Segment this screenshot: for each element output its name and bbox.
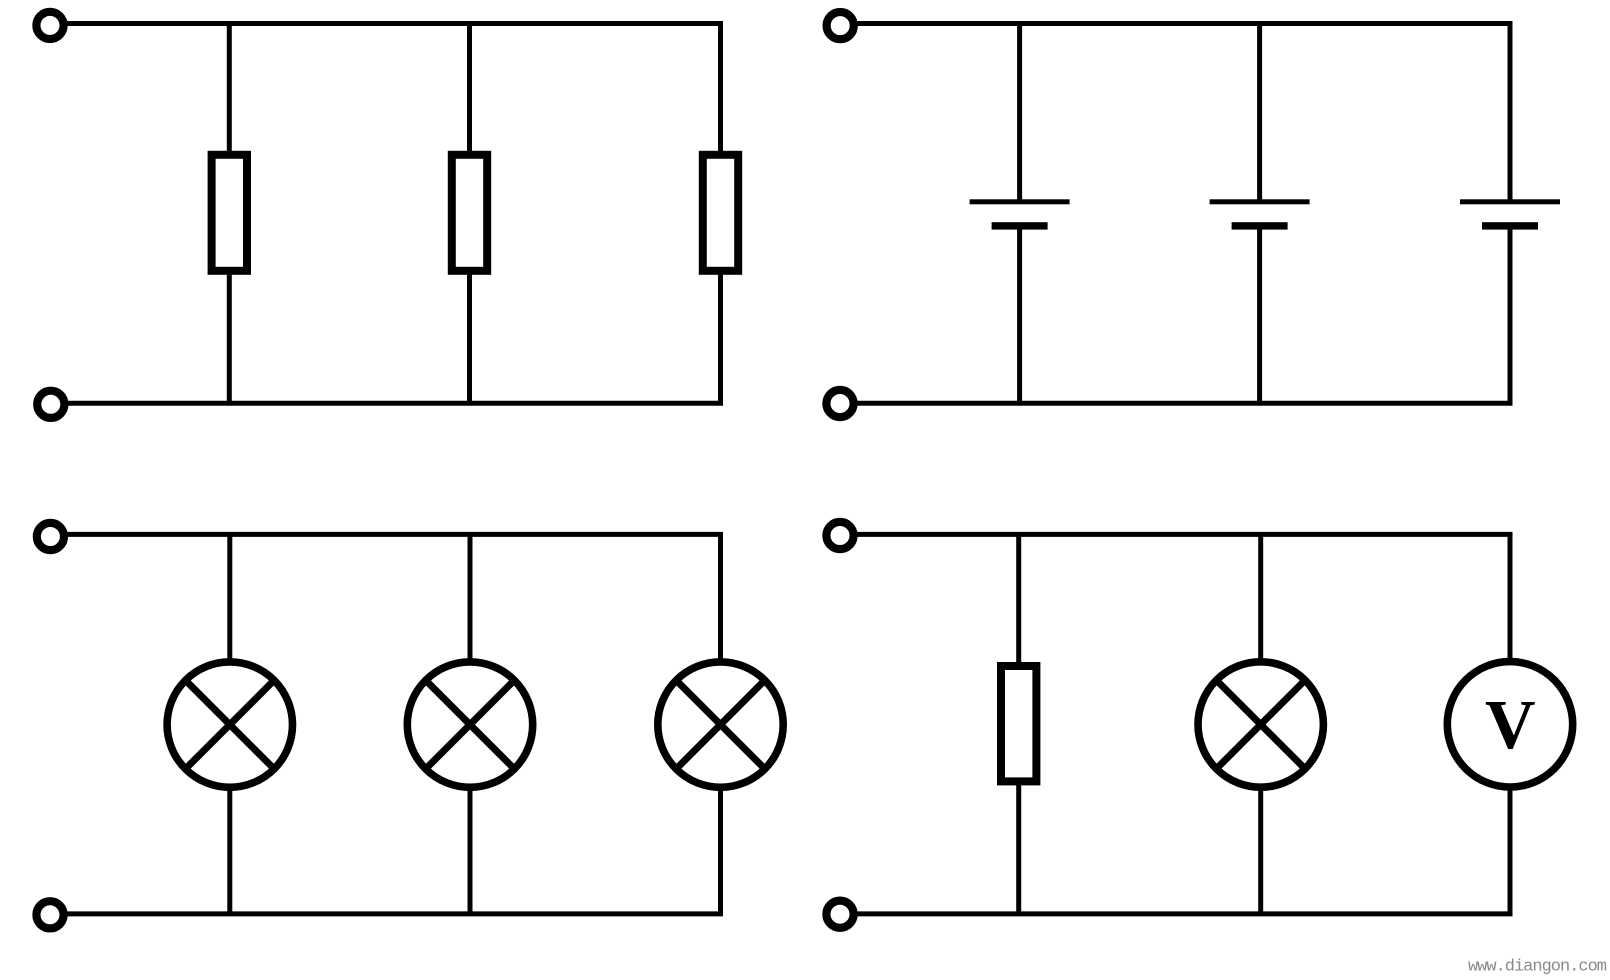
svg-text:V: V — [1485, 687, 1536, 764]
svg-text:www.diangon.com: www.diangon.com — [1468, 958, 1607, 977]
